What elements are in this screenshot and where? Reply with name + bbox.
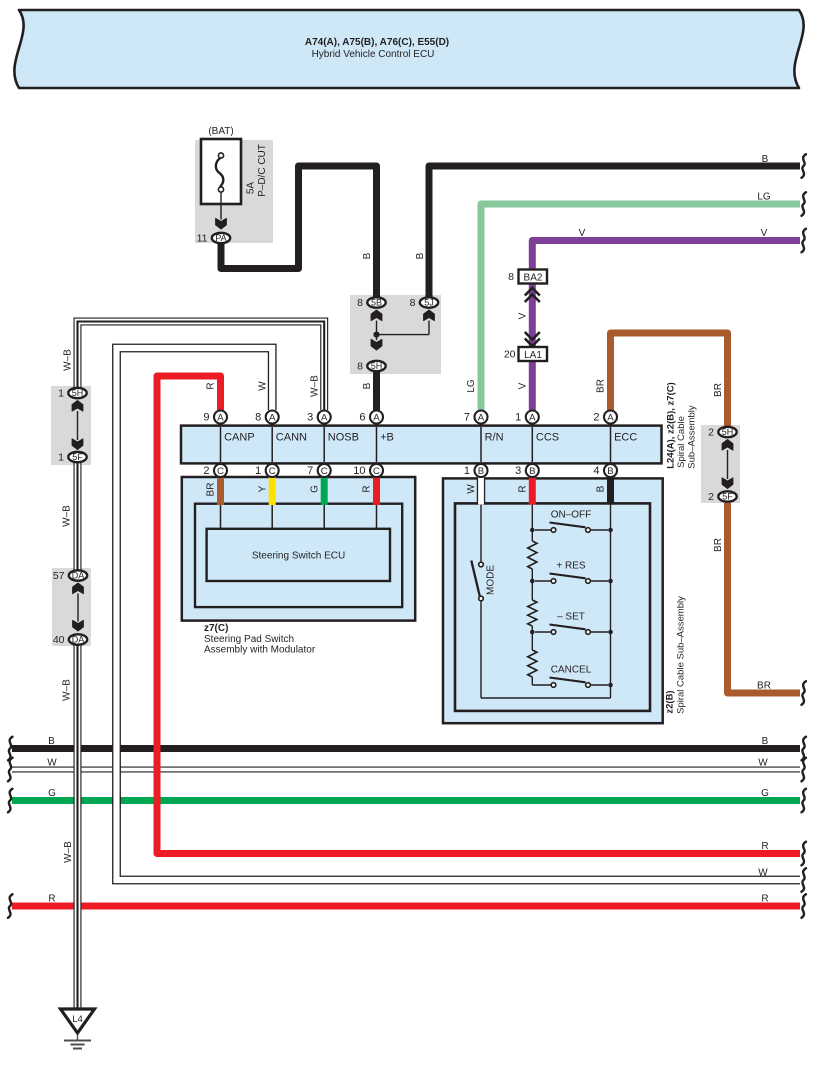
svg-text:– SET: – SET (557, 612, 585, 623)
svg-text:5H: 5H (722, 427, 734, 437)
svg-text:B: B (478, 466, 484, 477)
svg-text:L4: L4 (72, 1014, 83, 1025)
svg-text:C: C (321, 466, 328, 477)
svg-text:Steering Pad Switch: Steering Pad Switch (204, 634, 294, 645)
svg-text:A: A (269, 412, 276, 423)
svg-text:2: 2 (708, 491, 714, 503)
svg-text:R: R (206, 382, 217, 389)
svg-text:W–B: W–B (63, 841, 74, 863)
svg-text:A74(A), A75(B), A76(C), E55(D): A74(A), A75(B), A76(C), E55(D) (305, 37, 449, 48)
svg-text:W–B: W–B (309, 375, 320, 397)
svg-text:G: G (761, 788, 769, 799)
svg-text:W: W (47, 758, 57, 769)
svg-text:5B: 5B (371, 298, 382, 308)
svg-text:7: 7 (464, 411, 470, 423)
svg-text:LA1: LA1 (524, 350, 542, 361)
svg-text:Sub–Assembly: Sub–Assembly (687, 405, 698, 469)
svg-text:2: 2 (593, 411, 599, 423)
svg-text:ECC: ECC (614, 431, 637, 443)
svg-text:3: 3 (515, 465, 521, 477)
svg-text:CCS: CCS (536, 431, 559, 443)
svg-text:W: W (758, 868, 768, 879)
svg-text:11: 11 (197, 233, 208, 245)
svg-text:2: 2 (203, 465, 209, 477)
svg-text:8: 8 (410, 297, 416, 309)
svg-text:DA: DA (72, 635, 85, 645)
svg-text:B: B (48, 736, 55, 747)
svg-text:8: 8 (255, 411, 261, 423)
svg-text:CANCEL: CANCEL (551, 665, 592, 676)
svg-text:DA: DA (72, 571, 85, 581)
svg-text:8: 8 (357, 297, 363, 309)
svg-text:B: B (762, 154, 769, 165)
svg-text:7: 7 (307, 465, 313, 477)
svg-text:Steering Switch ECU: Steering Switch ECU (252, 551, 345, 562)
svg-text:CANN: CANN (276, 431, 307, 443)
svg-text:BR: BR (757, 681, 771, 692)
svg-text:R: R (362, 485, 373, 492)
svg-text:B: B (762, 736, 769, 747)
svg-text:(BAT): (BAT) (208, 126, 233, 137)
svg-text:Hybrid Vehicle Control ECU: Hybrid Vehicle Control ECU (312, 49, 435, 60)
svg-text:A: A (607, 412, 614, 423)
svg-text:B: B (529, 466, 535, 477)
svg-text:B: B (596, 485, 607, 492)
svg-text:5F: 5F (72, 452, 83, 462)
svg-text:G: G (309, 485, 320, 493)
svg-text:1: 1 (515, 411, 521, 423)
svg-text:3: 3 (307, 411, 313, 423)
svg-text:8: 8 (508, 271, 514, 283)
svg-text:G: G (48, 788, 56, 799)
svg-text:LG: LG (757, 192, 771, 203)
svg-text:1: 1 (464, 465, 470, 477)
svg-text:NOSB: NOSB (328, 431, 359, 443)
svg-text:2: 2 (708, 427, 714, 439)
svg-text:10: 10 (353, 465, 365, 477)
svg-text:Spiral Cable: Spiral Cable (676, 416, 687, 468)
svg-text:B: B (607, 466, 613, 477)
svg-text:W: W (257, 381, 268, 391)
svg-text:R: R (761, 894, 768, 905)
svg-text:W: W (758, 758, 768, 769)
svg-text:C: C (217, 466, 224, 477)
svg-text:CANP: CANP (224, 431, 255, 443)
svg-text:W–B: W–B (63, 349, 74, 371)
svg-text:BR: BR (713, 538, 724, 552)
svg-text:V: V (518, 312, 529, 319)
svg-text:40: 40 (53, 634, 65, 646)
svg-text:+ RES: + RES (556, 561, 586, 572)
svg-text:R: R (518, 485, 529, 492)
svg-text:5F: 5F (722, 492, 733, 502)
svg-text:BR: BR (596, 379, 607, 393)
svg-text:1: 1 (58, 388, 64, 400)
svg-text:A: A (478, 412, 485, 423)
svg-text:4: 4 (593, 465, 599, 477)
svg-text:V: V (761, 228, 768, 239)
svg-text:W–B: W–B (62, 505, 73, 527)
svg-text:BA2: BA2 (524, 273, 543, 284)
svg-text:Assembly with Modulator: Assembly with Modulator (204, 645, 316, 656)
svg-text:V: V (518, 382, 529, 389)
svg-text:R/N: R/N (485, 431, 504, 443)
svg-text:P–D/C CUT: P–D/C CUT (257, 144, 268, 197)
svg-text:MODE: MODE (486, 565, 497, 595)
svg-text:L24(A), z2(B), z7(C): L24(A), z2(B), z7(C) (666, 382, 677, 469)
svg-text:R: R (761, 841, 768, 852)
svg-text:A: A (529, 412, 536, 423)
svg-text:BR: BR (206, 483, 217, 497)
svg-text:A: A (321, 412, 328, 423)
svg-text:8: 8 (357, 361, 363, 373)
svg-text:R: R (48, 894, 55, 905)
svg-text:BR: BR (713, 383, 724, 397)
svg-text:B: B (362, 382, 373, 389)
svg-text:W: W (466, 484, 477, 494)
svg-text:LG: LG (466, 379, 477, 393)
svg-text:B: B (415, 252, 426, 259)
svg-text:PA: PA (215, 233, 226, 243)
svg-text:V: V (579, 228, 586, 239)
svg-text:5J: 5J (424, 298, 434, 308)
svg-text:5H: 5H (371, 361, 383, 371)
svg-text:W–B: W–B (62, 679, 73, 701)
svg-text:ON–OFF: ON–OFF (551, 510, 592, 521)
svg-text:6: 6 (359, 411, 365, 423)
svg-text:C: C (373, 466, 380, 477)
svg-text:Y: Y (257, 485, 268, 492)
svg-text:z7(C): z7(C) (204, 623, 228, 634)
svg-text:A: A (373, 412, 380, 423)
svg-text:5H: 5H (72, 388, 84, 398)
svg-text:C: C (269, 466, 276, 477)
svg-text:+B: +B (380, 431, 394, 443)
svg-text:Spiral Cable Sub–Assembly: Spiral Cable Sub–Assembly (676, 596, 687, 714)
svg-text:B: B (362, 252, 373, 259)
svg-text:20: 20 (504, 349, 516, 361)
svg-text:1: 1 (255, 465, 261, 477)
svg-text:z2(B): z2(B) (665, 690, 676, 713)
svg-text:1: 1 (58, 452, 64, 464)
svg-text:A: A (217, 412, 224, 423)
svg-text:9: 9 (203, 411, 209, 423)
svg-text:57: 57 (53, 570, 65, 582)
svg-text:5A: 5A (246, 182, 257, 195)
